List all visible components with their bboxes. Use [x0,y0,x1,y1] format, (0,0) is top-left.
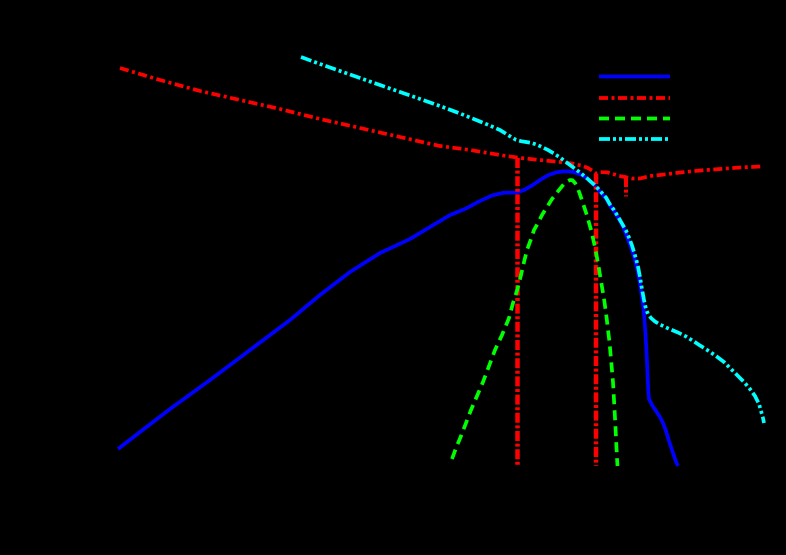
red dash-dot vertical line 1 [515,158,520,466]
legend cyan dash-dot-dot sample [599,137,670,141]
cyan dash-dot-dot curve [301,57,764,423]
legend blue solid sample [599,75,670,79]
red dash-dot curve [120,68,763,179]
green dashed curve [452,180,618,466]
red dash-dot spike [624,177,628,197]
legend green dashed sample [599,117,670,121]
blue solid curve [118,171,678,466]
red dash-dot vertical line 2 [594,174,599,466]
legend red dash-dot sample [599,96,670,100]
